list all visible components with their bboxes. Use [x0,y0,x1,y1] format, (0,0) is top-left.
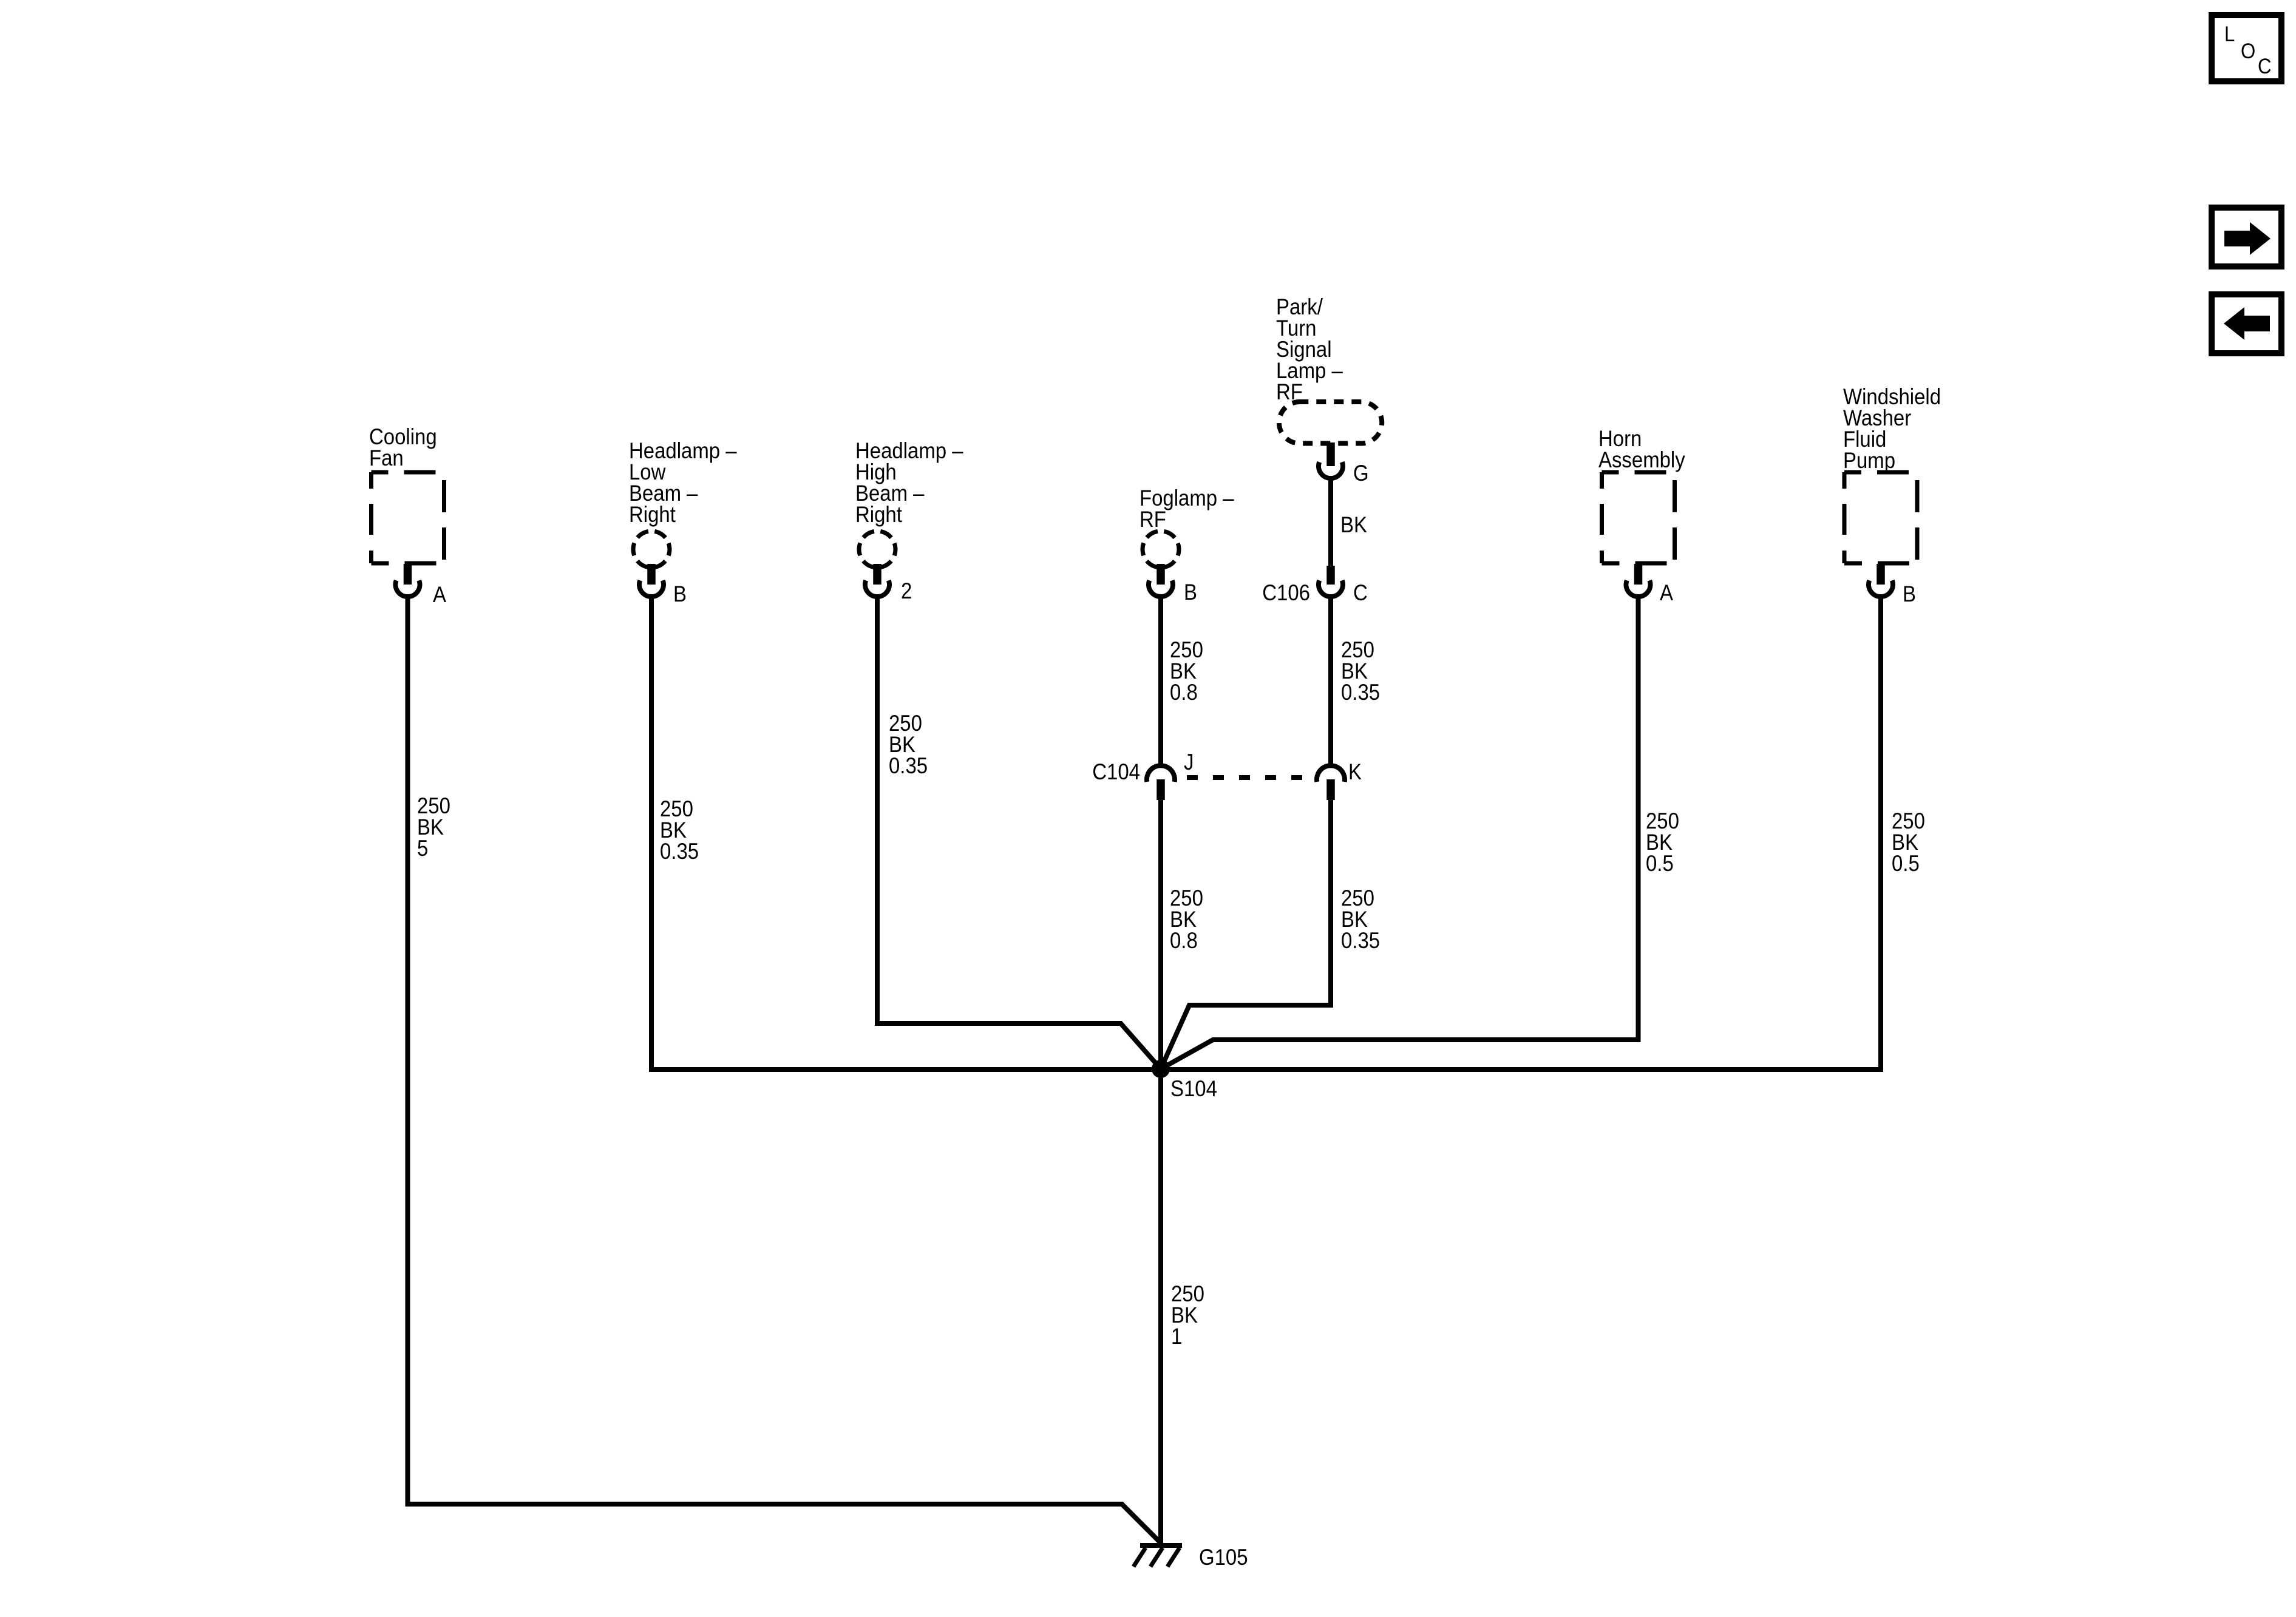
component Windshield Washer Fluid Pump label [1843,384,1941,473]
wire Cooling Fan to G105 (250 BK 5) [408,597,1161,1543]
component Horn Assembly dashed box [1602,472,1675,563]
svg-text:A: A [1660,580,1674,605]
inline connector C104 pin stub J [1156,779,1165,800]
svg-text:1: 1 [1171,1324,1182,1349]
svg-text:B: B [1184,580,1197,605]
svg-text:0.5: 0.5 [1646,851,1674,876]
dashed connector tie line C104 J to K [1180,775,1313,780]
svg-text:B: B [673,581,687,606]
component Foglamp dashed circle [1143,531,1179,568]
svg-text:0.8: 0.8 [1170,928,1198,953]
pin stub Headlamp High Beam pin 2 [873,564,881,585]
svg-text:C: C [2258,55,2271,78]
component Foglamp RF label [1140,486,1234,532]
splice S104 junction dot [1152,1060,1170,1078]
pin stub Foglamp pin B [1156,564,1165,585]
wire label 250 BK 0.5 (horn) [1646,808,1679,876]
wire label 250 BK 0.8 (foglamp upper) [1170,637,1203,705]
component Windshield Washer Fluid Pump dashed box [1844,472,1917,563]
component Headlamp High Beam Right label [855,438,963,527]
component Headlamp Low Beam dashed circle [633,531,670,568]
svg-text:5: 5 [417,836,428,861]
wire C104 K to S104 (250 BK 0.35) [1161,800,1331,1069]
svg-text:G: G [1353,461,1369,486]
connector cavity Cooling Fan pin A [395,580,419,597]
svg-text:Pump: Pump [1843,448,1895,473]
svg-text:C: C [1353,580,1368,605]
ground G105 hatch strokes [1133,1548,1180,1567]
svg-text:Right: Right [855,502,902,527]
component Headlamp Low Beam Right label [629,438,737,527]
inline connector C106 pin stub [1326,566,1335,585]
pin stub Horn Assembly pin A [1634,564,1643,585]
wire C104 J to S104 and G105 (250 BK 0.8 / 250 BK 1) [1158,800,1163,1545]
legend LOC box [2212,15,2281,81]
svg-text:K: K [1348,759,1362,784]
svg-text:Right: Right [629,502,676,527]
svg-text:BK: BK [1340,512,1367,537]
connector cavity Headlamp High Beam pin 2 [865,580,889,597]
component Park/Turn Signal Lamp RF label [1276,294,1343,404]
svg-text:RF: RF [1140,507,1166,532]
connector cavity Horn Assembly pin A [1626,580,1651,597]
svg-text:Fan: Fan [369,446,404,470]
svg-text:A: A [433,582,447,607]
svg-text:0.35: 0.35 [1341,928,1380,953]
wire label 250 BK 0.35 (high beam) [889,711,928,778]
pin stub Cooling Fan pin A [404,564,412,585]
svg-text:Assembly: Assembly [1598,447,1685,472]
pin stub Headlamp Low Beam pin B [647,564,656,585]
inline connector C104 cavity K [1317,765,1345,782]
wire label 250 BK 0.35 (low beam) [660,796,699,864]
svg-text:O: O [2241,39,2255,63]
svg-text:G105: G105 [1199,1545,1248,1570]
svg-text:C104: C104 [1092,759,1140,784]
wire label 250 BK 0.5 (washer) [1892,808,1925,876]
svg-text:0.5: 0.5 [1892,851,1920,876]
wire Windshield Washer Pump to S104 (250 BK 0.5) [1878,597,1883,1072]
pin stub Windshield Washer Pump pin B [1877,564,1885,585]
wire Foglamp to C104 pin J (250 BK 0.8) [1158,597,1163,764]
wire main bus through splice S104 [650,1067,1883,1072]
connector cavity Park/Turn Signal Lamp pin G [1319,462,1343,478]
wire label 250 BK 0.8 (below C104 J) [1170,886,1203,953]
svg-text:0.35: 0.35 [660,839,699,864]
component Horn Assembly label [1598,426,1685,472]
svg-text:J: J [1184,750,1194,775]
connector cavity Windshield Washer Pump pin B [1869,580,1893,597]
svg-text:2: 2 [901,578,912,603]
inline connector C104 cavity J [1147,765,1175,782]
svg-text:0.35: 0.35 [1341,680,1380,705]
wire label 250 BK 0.35 (below C104 K) [1341,886,1380,953]
component Park/Turn Signal Lamp dashed stadium outline [1279,402,1382,444]
wire label 250 BK 1 (splice to ground) [1171,1281,1204,1349]
svg-text:B: B [1903,581,1916,606]
legend arrow box: left arrow [2212,294,2281,353]
svg-text:C106: C106 [1262,580,1310,605]
component Cooling Fan label [369,424,437,470]
connector cavity Headlamp Low Beam pin B [639,580,664,597]
legend arrow box: right arrow [2212,208,2281,266]
inline connector C106 cavity [1319,580,1343,597]
connector cavity Foglamp pin B [1149,580,1173,597]
wire Horn Assembly to S104 (250 BK 0.5) [1161,597,1639,1069]
pin stub Park/Turn Signal Lamp pin G [1326,442,1335,466]
wire Headlamp Low Beam to S104 (250 BK 0.35) [649,597,654,1072]
ground G105 symbol bar [1140,1543,1182,1548]
wire label 250 BK 0.35 (C106 branch) [1341,637,1380,705]
wire label 250 BK 5 [417,793,450,861]
component Cooling Fan dashed box [372,472,444,563]
inline connector C104 pin stub K [1326,779,1335,800]
wire C106 to C104 pin K (250 BK 0.35) [1328,597,1333,764]
wire Headlamp High Beam to S104 (250 BK 0.35) [877,597,1161,1069]
svg-text:L: L [2224,22,2235,46]
svg-text:0.8: 0.8 [1170,680,1198,705]
component Headlamp High Beam dashed circle [859,531,895,568]
svg-text:0.35: 0.35 [889,753,928,778]
svg-text:S104: S104 [1170,1076,1217,1101]
wire Park/Turn lamp pin G to C106 (BK) [1328,478,1333,566]
